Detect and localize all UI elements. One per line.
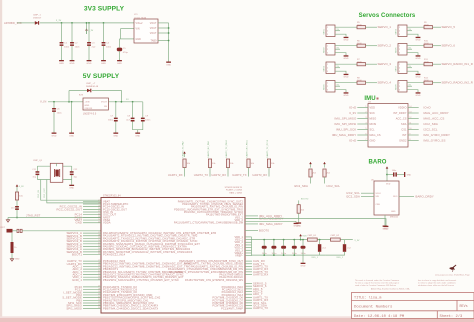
wire MCU left pin y254.5 bbox=[83, 254, 101, 256]
wire U1 pin2 bbox=[121, 28, 135, 30]
svg-text:SERVO_5: SERVO_5 bbox=[442, 25, 456, 29]
svg-text:GND: GND bbox=[344, 58, 349, 60]
wire MCU left pin y206.7 bbox=[83, 206, 101, 208]
wire R2 to ground bbox=[11, 253, 13, 257]
wire right cap bottom bbox=[71, 175, 73, 179]
resistor R5 bbox=[357, 26, 366, 29]
junction tab bbox=[168, 40, 170, 42]
svg-text:VDD: VDD bbox=[370, 107, 376, 110]
svg-text:MISO: MISO bbox=[370, 118, 377, 121]
svg-text:IO+D: IO+D bbox=[349, 139, 356, 143]
wire SRV7 pin1 bbox=[407, 63, 424, 65]
svg-text:MAG_ACC_DRDY: MAG_ACC_DRDY bbox=[424, 111, 449, 115]
wire SRV6 pin3 bbox=[407, 53, 418, 54]
svg-text:25: 25 bbox=[98, 307, 100, 309]
wire MCU left pin y246.5 bbox=[83, 246, 101, 248]
svg-text:1: 1 bbox=[366, 106, 367, 108]
IMU title red mark bbox=[377, 98, 379, 100]
svg-text:GND: GND bbox=[136, 39, 142, 41]
svg-text:100n: 100n bbox=[145, 119, 151, 121]
ground bbox=[416, 72, 421, 78]
svg-text:19: 19 bbox=[98, 265, 100, 267]
svg-text:UART2_RX: UART2_RX bbox=[211, 173, 226, 177]
wire MCU left pin y261.1 bbox=[83, 260, 101, 262]
capacitor C20 bbox=[318, 244, 321, 252]
svg-text:20: 20 bbox=[98, 268, 100, 270]
wire MCU left pin y238.5 bbox=[83, 237, 101, 239]
svg-text:19: 19 bbox=[98, 205, 100, 207]
capacitor C1 bbox=[60, 42, 64, 46]
wire SRV7 pin3 bbox=[407, 71, 418, 72]
svg-text:GND2: GND2 bbox=[399, 140, 407, 143]
supply +3V3 bbox=[85, 28, 94, 34]
svg-text:VOUT: VOUT bbox=[101, 102, 108, 104]
svg-text:UART4_TX: UART4_TX bbox=[253, 306, 268, 310]
wire GND rail bbox=[252, 254, 326, 256]
resistor R2 bbox=[11, 242, 14, 253]
wire U1 out1 bbox=[158, 22, 169, 24]
svg-text:IMU_MAG_DRDY: IMU_MAG_DRDY bbox=[259, 222, 283, 226]
svg-text:VIN+2: VIN+2 bbox=[136, 23, 144, 25]
capacitor C3 bbox=[87, 42, 91, 46]
wire pull UART2_TX bbox=[209, 168, 211, 177]
wire join to ground bbox=[137, 130, 139, 131]
wire MCU vdd pin y250.3 bbox=[245, 249, 252, 251]
wire MCU right pin y294.2 bbox=[245, 293, 252, 295]
wire pullup I2C2_SDA bbox=[310, 177, 312, 184]
svg-text:IMU_MAG_DRDY: IMU_MAG_DRDY bbox=[332, 133, 357, 137]
wire MCU right pin y305.5 bbox=[245, 305, 252, 307]
junction VDD arrow bbox=[300, 239, 302, 241]
svg-text:1N5817: 1N5817 bbox=[33, 18, 42, 20]
page left margin bar bbox=[0, 0, 2, 322]
wire BOOT0 pin bbox=[245, 230, 258, 232]
wire MCU left pin y243.8 bbox=[83, 243, 101, 245]
svg-text:SCK: SCK bbox=[370, 112, 376, 115]
resistor R9 bbox=[424, 26, 433, 29]
svg-text:GND: GND bbox=[87, 63, 92, 65]
wire cap top bbox=[293, 240, 295, 246]
svg-text:25: 25 bbox=[98, 221, 100, 223]
wire SRV1 pin3 bbox=[335, 34, 346, 35]
wire MCU vdd pin y253.0 bbox=[245, 252, 252, 254]
junction GND rail bbox=[293, 254, 295, 256]
ground bbox=[70, 59, 75, 65]
svg-text:20: 20 bbox=[98, 208, 100, 210]
wire AP/FBW_3V3 to D1 bbox=[17, 22, 36, 24]
wire cap top bbox=[263, 240, 265, 246]
svg-text:21: 21 bbox=[98, 271, 100, 273]
svg-text:1: 1 bbox=[327, 64, 328, 66]
svg-text:24: 24 bbox=[98, 279, 100, 281]
wire vdd collector bbox=[251, 237, 253, 256]
junction VDD bbox=[263, 239, 265, 241]
wire MCU right pin y261.1 bbox=[245, 260, 252, 262]
wire MCU right pin y223.9 bbox=[245, 223, 258, 225]
svg-text:IO+D: IO+D bbox=[349, 106, 356, 110]
svg-text:GND: GND bbox=[370, 140, 376, 143]
svg-text:SCL: SCL bbox=[370, 129, 376, 132]
wire to C10 bbox=[387, 174, 393, 176]
ground bbox=[166, 60, 171, 66]
wire left cap top bbox=[36, 166, 38, 171]
capacitor C5 bbox=[117, 48, 122, 52]
svg-text:SERVO_1: SERVO_1 bbox=[378, 25, 392, 29]
wire to ground A bbox=[245, 220, 296, 222]
svg-text:GND: GND bbox=[407, 175, 412, 177]
wire MCU left pin y297.6 bbox=[83, 297, 101, 299]
svg-text:18: 18 bbox=[98, 234, 100, 236]
svg-text:Servos Connectors: Servos Connectors bbox=[359, 13, 416, 19]
svg-text:10k: 10k bbox=[19, 196, 23, 198]
svg-text:UART2_RX_PA3: UART2_RX_PA3 bbox=[207, 140, 210, 157]
wire SRV2 pin1 bbox=[335, 45, 357, 47]
wire C5 to ground bbox=[119, 51, 121, 58]
junction C7 bbox=[115, 101, 117, 103]
wire SRV6 pin2 bbox=[407, 48, 412, 50]
svg-text:VOUT: VOUT bbox=[150, 23, 157, 25]
wire SRV8 pin3 bbox=[407, 90, 418, 91]
wire MCU left pin y233.1 bbox=[83, 232, 101, 234]
svg-text:1: 1 bbox=[327, 83, 328, 85]
resistor pull UART2_TX bbox=[208, 159, 211, 168]
wire U1 pin3 bbox=[120, 38, 135, 40]
svg-text:GND_1: GND_1 bbox=[72, 278, 82, 282]
svg-text:100n: 100n bbox=[106, 46, 112, 48]
svg-text:GND: GND bbox=[416, 58, 421, 60]
wire to C20 bbox=[319, 240, 321, 245]
svg-text:19: 19 bbox=[98, 291, 100, 293]
wire MCU left pin y286.9 bbox=[83, 286, 101, 288]
svg-text:IMU_SPI_MOSI: IMU_SPI_MOSI bbox=[335, 122, 357, 126]
svg-text:5: 5 bbox=[366, 128, 367, 130]
svg-text:23: 23 bbox=[98, 248, 100, 250]
junction out3 bbox=[168, 32, 170, 34]
svg-text:SRV1: SRV1 bbox=[324, 28, 326, 34]
wire MCU right pin y271.8 bbox=[245, 271, 252, 273]
wire S1 to C14 bbox=[13, 230, 17, 232]
IC U6 MCU STM32 bbox=[101, 198, 245, 314]
wire IMU right pin 6 bbox=[408, 134, 419, 136]
capacitor C15 bbox=[262, 246, 267, 249]
wire IMU left pin 1 bbox=[357, 107, 368, 109]
capacitor C14 bbox=[17, 229, 19, 232]
wire IMU right pin 4 bbox=[408, 123, 419, 125]
svg-text:1: 1 bbox=[399, 27, 400, 29]
svg-text:GND: GND bbox=[416, 40, 421, 42]
wire SRV8 pin1 bbox=[407, 82, 424, 84]
svg-text:GND: GND bbox=[75, 221, 82, 225]
svg-text:2u2: 2u2 bbox=[347, 248, 350, 250]
svg-text:24: 24 bbox=[98, 304, 100, 306]
wire R10 to label bbox=[433, 45, 442, 47]
wire IMU right pin 1 bbox=[408, 107, 419, 109]
svg-text:ACC_CS: ACC_CS bbox=[396, 118, 407, 121]
resistor pull UART3_TX bbox=[247, 159, 250, 168]
wire cap bottom bbox=[283, 249, 285, 255]
wire MCU left pin y217.4 bbox=[83, 216, 101, 218]
wire to C9 bbox=[142, 102, 144, 118]
svg-text:GND: GND bbox=[344, 77, 349, 79]
svg-text:100n: 100n bbox=[301, 253, 307, 255]
wire IMU right pin 7 bbox=[408, 140, 419, 142]
svg-text:1k: 1k bbox=[14, 247, 16, 249]
wire crystal top rail bbox=[37, 165, 71, 167]
wire cap bottom bbox=[302, 249, 304, 255]
svg-text:PB9/TIM4_CH4/SDIO_D5/I2C1_SDA/: PB9/TIM4_CH4/SDIO_D5/I2C1_SDA/CANTX bbox=[103, 306, 158, 310]
svg-text:21: 21 bbox=[98, 211, 100, 213]
wire U1 out2 bbox=[158, 27, 169, 29]
wire pull UART3_RX bbox=[268, 168, 270, 177]
svg-text:17: 17 bbox=[98, 200, 100, 202]
ground bbox=[52, 131, 57, 137]
wire to C5 bbox=[119, 39, 121, 48]
svg-text:1: 1 bbox=[327, 27, 328, 29]
svg-text:BARO: BARO bbox=[368, 160, 386, 166]
ground sideways bbox=[404, 172, 405, 177]
wire MCU left pin y209.3 bbox=[83, 208, 101, 210]
capacitor C6 bbox=[52, 108, 56, 112]
regulator U1 bbox=[134, 19, 158, 43]
title block frame bbox=[352, 293, 474, 319]
svg-text:SERVO_RADIO_IN2_R: SERVO_RADIO_IN2_R bbox=[442, 81, 473, 85]
ground bbox=[294, 221, 299, 227]
svg-text:15p: 15p bbox=[33, 177, 36, 179]
svg-text:3_3V: 3_3V bbox=[88, 30, 93, 32]
svg-text:100n: 100n bbox=[64, 46, 70, 48]
svg-text:TITLE: lisa_m: TITLE: lisa_m bbox=[354, 295, 381, 300]
junction feedback bbox=[68, 101, 70, 103]
ground bbox=[384, 224, 389, 230]
svg-text:VDDIO: VDDIO bbox=[398, 107, 406, 110]
svg-text:GND: GND bbox=[344, 95, 349, 97]
IC U5 BARO bbox=[374, 181, 399, 215]
junction C20 bbox=[319, 239, 321, 241]
wire right cap top bbox=[71, 166, 73, 171]
wire cap bottom bbox=[293, 249, 295, 255]
wire cap bottom bbox=[273, 249, 275, 255]
resistor pull UART1_RX bbox=[183, 159, 186, 168]
svg-text:1: 1 bbox=[399, 83, 400, 85]
svg-text:SRV3: SRV3 bbox=[324, 65, 326, 71]
svg-text:INT_DRDY: INT_DRDY bbox=[393, 112, 407, 115]
ground bbox=[117, 59, 122, 65]
wire MCU left pin y289.6 bbox=[83, 289, 101, 291]
wire SRV1 pin2 bbox=[335, 30, 340, 32]
wire C2 to ground bbox=[71, 46, 73, 59]
crystal Q1 symbol bbox=[55, 169, 60, 177]
resistor R12 bbox=[424, 81, 433, 84]
svg-text:GND: GND bbox=[301, 266, 306, 268]
wire left cap bottom bbox=[36, 175, 38, 179]
junction GND rail bbox=[263, 254, 265, 256]
svg-text:330u: 330u bbox=[108, 119, 114, 121]
svg-text:JTAG_RST: JTAG_RST bbox=[26, 214, 41, 218]
wire U1 out3 bbox=[158, 32, 169, 34]
wire 5V output bbox=[108, 101, 142, 103]
capacitor C18 bbox=[292, 246, 297, 249]
wire OSC_IN to MCU bbox=[41, 180, 101, 201]
wire IMU left pin 2 bbox=[357, 112, 368, 114]
svg-text:17: 17 bbox=[98, 232, 100, 234]
svg-text:100n: 100n bbox=[75, 46, 81, 48]
wire SRV6 pin1 bbox=[407, 45, 424, 47]
wire MCU vdd pin y244.9 bbox=[245, 244, 252, 246]
svg-text:IO+D: IO+D bbox=[424, 106, 431, 110]
ground arrow reset bbox=[6, 218, 9, 223]
wire MCU left pin y220.1 bbox=[83, 219, 101, 221]
svg-text:CSB: CSB bbox=[376, 204, 381, 206]
svg-text:10: 10 bbox=[410, 128, 412, 130]
wire SRV4 pin3 bbox=[335, 90, 346, 91]
resistor R10 bbox=[424, 44, 433, 47]
svg-text:2: 2 bbox=[399, 86, 400, 88]
svg-text:18: 18 bbox=[98, 203, 100, 205]
svg-text:I2C2_SCL: I2C2_SCL bbox=[424, 128, 438, 132]
svg-text:UART5_RX: UART5_RX bbox=[253, 273, 268, 277]
wire long to right ground bbox=[245, 219, 386, 225]
resistor R11 bbox=[424, 63, 433, 66]
wire U1 output down bbox=[168, 23, 170, 60]
connector SRV4 bbox=[326, 81, 335, 93]
svg-text:attribution share alike see th: attribution share alike see the full lic… bbox=[418, 284, 454, 287]
wire MCU left pin y212.0 bbox=[83, 211, 101, 213]
svg-text:2: 2 bbox=[327, 68, 328, 70]
wire feedback right bbox=[92, 91, 121, 102]
wire MCU left pin y305.7 bbox=[83, 305, 101, 307]
wire IMU left pin 5 bbox=[357, 129, 368, 131]
wire MCU vdd pin y242.3 bbox=[245, 241, 252, 243]
svg-text:25: 25 bbox=[98, 253, 100, 255]
svg-text:I2C2_SDA: I2C2_SDA bbox=[346, 195, 360, 199]
wire MCU right pin y263.8 bbox=[245, 263, 252, 265]
svg-text:SRV6: SRV6 bbox=[396, 47, 398, 53]
svg-text:4: 4 bbox=[366, 123, 367, 125]
wire IMU right pin 5 bbox=[408, 129, 419, 131]
svg-text:UART2_TX_PA2: UART2_TX_PA2 bbox=[182, 141, 185, 158]
svg-text:3: 3 bbox=[327, 34, 328, 36]
svg-text:VDD_2: VDD_2 bbox=[336, 257, 343, 259]
wire MCU right pin y291.5 bbox=[245, 291, 252, 293]
wire R11 to label bbox=[433, 63, 442, 65]
svg-text:21: 21 bbox=[98, 243, 100, 245]
ground bbox=[383, 224, 388, 230]
svg-text:CMP_E2: CMP_E2 bbox=[331, 235, 340, 237]
wire U1 tab bbox=[158, 40, 169, 42]
wire MCU vdd pin y236.9 bbox=[245, 236, 252, 238]
capacitor C8 bbox=[131, 118, 135, 122]
svg-text:GND: GND bbox=[344, 40, 349, 42]
junction C3 bbox=[88, 22, 90, 24]
svg-text:VREF-: VREF- bbox=[235, 254, 243, 258]
wire MCU left pin y308.3 bbox=[83, 307, 101, 309]
svg-text:15p: 15p bbox=[74, 177, 77, 179]
capacitor C13 bbox=[15, 206, 19, 210]
svg-text:MOSI: MOSI bbox=[370, 123, 377, 126]
svg-text:SRV7: SRV7 bbox=[396, 65, 398, 71]
svg-text:GND: GND bbox=[101, 63, 106, 65]
svg-text:PB13/SPI2_SCK/USART3_CTS/TIM1_: PB13/SPI2_SCK/USART3_CTS/TIM1_CH1N/SPI_E… bbox=[103, 278, 179, 282]
svg-text:10k: 10k bbox=[230, 163, 234, 165]
svg-text:3: 3 bbox=[399, 53, 400, 55]
wire SRV3 pin3 bbox=[335, 71, 346, 72]
svg-text:3: 3 bbox=[399, 90, 400, 92]
ground bbox=[344, 54, 349, 60]
svg-text:VIN: VIN bbox=[136, 29, 140, 31]
svg-text:3: 3 bbox=[399, 71, 400, 73]
connector SRV3 bbox=[326, 62, 335, 74]
svg-text:CMP_+T: CMP_+T bbox=[86, 83, 96, 85]
resistor R16 bbox=[297, 205, 300, 214]
svg-text:BOOT0: BOOT0 bbox=[259, 229, 269, 233]
capacitor C10 bbox=[393, 172, 395, 176]
reset button S1 bbox=[7, 229, 13, 233]
wire BARO vdd bbox=[386, 172, 388, 181]
svg-text:I2C2_SCL: I2C2_SCL bbox=[327, 184, 341, 188]
svg-text:SERVO_2: SERVO_2 bbox=[378, 44, 392, 48]
svg-text:REVs: REVs bbox=[460, 305, 468, 309]
wire MCU right pin y300.2 bbox=[245, 299, 252, 301]
capacitor C12 bbox=[70, 171, 74, 175]
svg-text:DMMF4148: DMMF4148 bbox=[86, 86, 99, 88]
crystal Q1 box bbox=[50, 163, 63, 182]
svg-text:1: 1 bbox=[327, 46, 328, 48]
wire V_IN to U2 bbox=[48, 101, 83, 103]
ground bbox=[87, 59, 92, 65]
svg-text:IMU_GYRO_DRDY: IMU_GYRO_DRDY bbox=[424, 133, 451, 137]
ground bbox=[416, 54, 421, 60]
junction C8 bbox=[132, 101, 134, 103]
svg-text:send a letter to Creative Comm: send a letter to Creative Commons 559 Na… bbox=[355, 284, 396, 287]
wire to C3 bbox=[88, 23, 90, 42]
svg-text:UART1_RX: UART1_RX bbox=[168, 173, 183, 177]
wire R5 to label bbox=[366, 26, 378, 28]
supply BARO 3V3 bbox=[386, 166, 389, 172]
svg-text:2: 2 bbox=[399, 31, 400, 33]
svg-text:LM2574-5.0: LM2574-5.0 bbox=[83, 114, 97, 116]
svg-text:UART3_RX_PB11: UART3_RX_PB11 bbox=[246, 139, 249, 157]
svg-text:17: 17 bbox=[98, 286, 100, 288]
wire reset net to MCU bbox=[22, 230, 101, 232]
ground bbox=[59, 59, 64, 65]
svg-text:10k: 10k bbox=[212, 163, 216, 165]
wire IMU right pin 3 bbox=[408, 118, 419, 120]
svg-text:6: 6 bbox=[366, 134, 367, 136]
wire crystal bottom rail bbox=[37, 179, 71, 181]
wire cap top bbox=[273, 240, 275, 246]
ground bbox=[416, 35, 421, 41]
svg-text:1: 1 bbox=[399, 46, 400, 48]
svg-text:MS5611: MS5611 bbox=[390, 217, 399, 219]
wire I2C2_SDA to U5 bbox=[361, 195, 374, 197]
svg-text:24: 24 bbox=[98, 219, 100, 221]
svg-text:BOOT1: BOOT1 bbox=[72, 253, 82, 257]
svg-text:10k: 10k bbox=[301, 210, 305, 212]
wire MCU left pin y269.1 bbox=[83, 268, 101, 270]
wire MCU left pin y271.8 bbox=[83, 271, 101, 273]
wire JTAG_RST to MCU bbox=[8, 217, 101, 219]
ground bbox=[101, 59, 106, 65]
svg-text:RAM = 64KB: RAM = 64KB bbox=[229, 191, 242, 194]
junction VDD bbox=[273, 239, 275, 241]
svg-text:C11: C11 bbox=[32, 169, 36, 171]
wire to C7 bbox=[115, 102, 117, 118]
junction U2 gnd leg bbox=[71, 101, 73, 103]
wire C10 to ground bbox=[397, 174, 404, 176]
junction out2 bbox=[168, 27, 170, 29]
svg-text:GND: GND bbox=[416, 77, 421, 79]
wire cap bottom bbox=[263, 249, 265, 255]
